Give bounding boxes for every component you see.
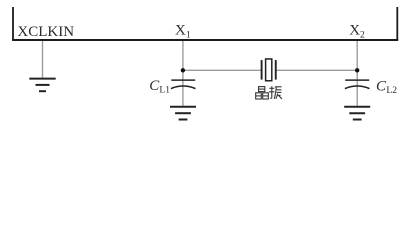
node A (X1 junction dot) [181,68,185,72]
svg-text:L2: L2 [386,86,397,96]
ground GND3 [344,107,370,120]
wire: crystal right terminal to X2 node [277,69,358,71]
wire: X1 vertical drop to CL1 and ground [182,41,184,106]
node B (X2 junction dot) [355,68,359,72]
wire: right chip-boundary vertical stub [396,7,398,40]
svg-text:L1: L1 [159,86,170,96]
capacitor CL2 [345,80,370,89]
wire: X2 vertical drop to CL2 and ground [356,41,358,106]
svg-text:XCLKIN: XCLKIN [17,24,74,40]
label 晶 (crystal character, drawn as strokes) [256,87,269,99]
ground GND1 [29,79,55,92]
svg-text:X1: X1 [175,23,191,41]
svg-text:X2: X2 [349,23,365,41]
label 振 (oscillator character, drawn as strokes) [269,86,282,99]
ground GND2 [170,107,196,120]
svg-text:C: C [376,78,387,94]
crystal Y1 [262,59,276,81]
wire: X1 node to crystal left terminal [183,69,261,71]
capacitor CL1 [171,80,196,89]
wire: left chip-boundary vertical stub [12,7,14,40]
wire: top horizontal chip-edge bus [12,39,398,41]
wire: XCLKIN ground drop [42,41,44,78]
